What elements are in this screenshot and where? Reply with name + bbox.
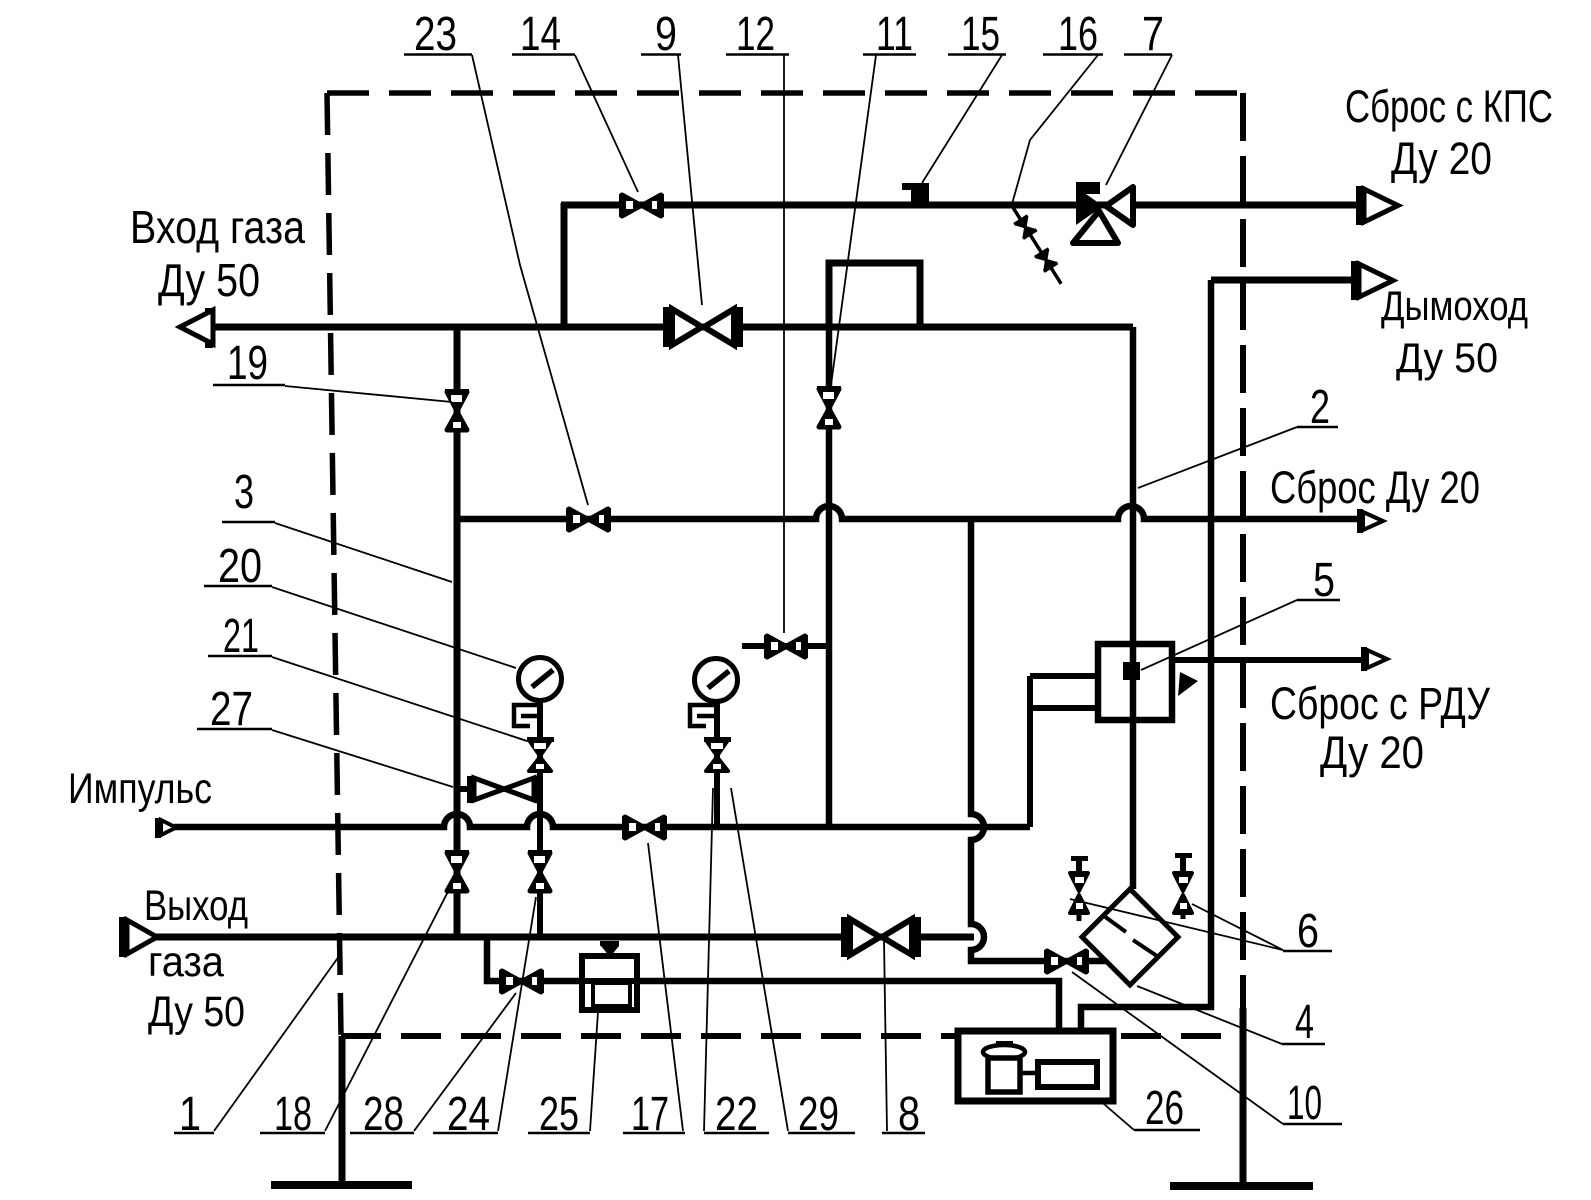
cabinet right leg [1240,1008,1247,1183]
callout 6 [1070,899,1332,958]
valve 9 inlet main [663,307,743,347]
callout 22 [704,788,769,1141]
valve 23 vent line [566,508,611,531]
svg-text:Импульс: Импульс [68,765,212,813]
wire: heater riser x829 [826,327,833,827]
svg-text:19: 19 [227,337,268,390]
wire: safety device to solenoid [637,981,1059,1062]
svg-text:газа: газа [148,938,224,986]
svg-text:Ду 50: Ду 50 [158,254,260,306]
svg-text:16: 16 [1058,8,1098,61]
valve 8 outlet main [841,917,921,957]
valve 28 safety device line [499,970,544,993]
callout 25 [528,1012,598,1141]
svg-text:26: 26 [1145,1082,1184,1135]
enclosure dashed border bottom [341,1033,1243,1039]
callout 27 [197,683,453,787]
svg-text:23: 23 [414,8,457,61]
valve 12 heater stub [764,635,808,658]
needle valve 6 right [1174,853,1192,919]
svg-text:Выход: Выход [144,882,248,930]
svg-text:Сброс с КПС: Сброс с КПС [1345,81,1553,132]
svg-text:3: 3 [234,466,254,519]
burner box 26 [958,1031,1113,1101]
callout 9 [641,8,702,305]
gauge 22 [690,659,738,727]
svg-text:12: 12 [736,8,775,61]
svg-text:7: 7 [1142,8,1164,61]
valve 24 gauge riser lower [528,850,552,891]
callout 24 [433,897,536,1141]
vent flag 15 [902,183,929,202]
svg-text:Сброс Ду 20: Сброс Ду 20 [1270,462,1480,513]
valve 18 riser x457 lower [445,850,469,891]
wire: flue riser [1081,280,1211,1062]
callout 18 [260,878,455,1141]
safety shutoff device 25 [582,941,637,1010]
ground left [271,1181,412,1189]
enclosure dashed border right [1240,93,1246,1036]
svg-text:11: 11 [876,8,913,61]
heater top chamber [829,263,920,327]
wire: gauge cross line [457,786,540,792]
wire: flue outlet [1211,277,1352,284]
callout 14 [512,8,638,192]
valve 19 riser x457 [445,389,469,430]
wire: vent line with jumps [457,506,1357,519]
wire: impulse line with jumps [174,814,1030,827]
svg-text:Ду 20: Ду 20 [1391,133,1492,184]
node: vent arrow [1357,509,1383,533]
callout 15 [922,8,1006,183]
wire: reduction riser x457 [454,327,461,937]
callout 26 [1097,1082,1200,1135]
node: gas outlet arrow [119,917,157,957]
wire: relief header to KPS [561,202,1356,209]
callout 29 [731,788,855,1141]
wire: gauge20 riser [537,701,543,937]
callout 19 [213,337,452,402]
purge assembly 16 [1005,202,1068,288]
wire: bypass riser [561,203,568,327]
valve 11 heater riser [817,386,841,427]
callout 20 [204,540,516,668]
svg-text:Ду 20: Ду 20 [1320,727,1424,778]
valve 21 gauge20 cock [527,737,554,771]
svg-text:Сброс с РДУ: Сброс с РДУ [1270,678,1490,729]
valve 10 filter line [1044,950,1089,973]
enclosure dashed border top [327,90,1243,96]
callout 28 [350,993,516,1141]
svg-text:Ду 50: Ду 50 [1396,334,1498,381]
svg-text:15: 15 [961,8,1000,61]
callout 2 [1138,381,1338,488]
callout 11 [831,8,916,385]
valve 17 impulse line [622,816,667,839]
gauge 20 [514,658,562,727]
needle valve 6 left [1070,856,1088,921]
node: flue arrow [1351,261,1393,300]
callout 16 [1012,8,1103,204]
svg-text:Вход газа: Вход газа [130,201,305,253]
node: impulse arrow [155,818,176,838]
wire: relief valve outlet [1172,657,1362,663]
enclosure dashed border left [327,93,341,1036]
callout 17 [623,843,685,1141]
valve 29 gauge22 cock [704,737,731,771]
svg-text:9: 9 [655,8,677,61]
callout 7 [1106,8,1172,185]
callout 21 [208,610,527,741]
svg-text:10: 10 [1287,1077,1322,1130]
node: RDU relief arrow [1361,647,1387,671]
ground right [1170,1182,1313,1190]
wire: downpipe x971 with jumps [971,519,1107,961]
callout 23 [404,8,588,505]
node: KPS relief arrow [1356,186,1398,225]
callout 10 [1072,972,1342,1130]
wire: bypass to safety device [487,937,582,981]
svg-text:14: 14 [520,8,561,61]
svg-text:Ду 50: Ду 50 [148,988,245,1036]
callout 5 [1141,554,1340,670]
relief valve 5 [1098,644,1198,720]
svg-text:4: 4 [1295,996,1314,1049]
valve 14 bypass [619,194,664,217]
wire: inlet gas main line [212,324,1133,331]
wire: impulse to relief valve [1030,676,1098,827]
callout 4 [1137,986,1325,1049]
valve 27 gauge cross [467,776,541,803]
node: gas inlet arrow [180,308,213,348]
wire: outlet gas line [155,934,974,941]
cabinet left leg [339,1036,346,1182]
callout 1 [174,952,342,1141]
valve 7 three-way KPS [1073,182,1133,243]
callout 8 [882,940,925,1141]
svg-text:Дымоход: Дымоход [1381,282,1528,329]
wire: valve12 stub [742,643,829,649]
callout 3 [222,466,452,582]
wire: gauge22 riser [714,702,720,827]
filter 4 [1082,889,1178,985]
wire: regulator riser x1133 [1130,327,1137,889]
callout 12 [726,8,789,633]
